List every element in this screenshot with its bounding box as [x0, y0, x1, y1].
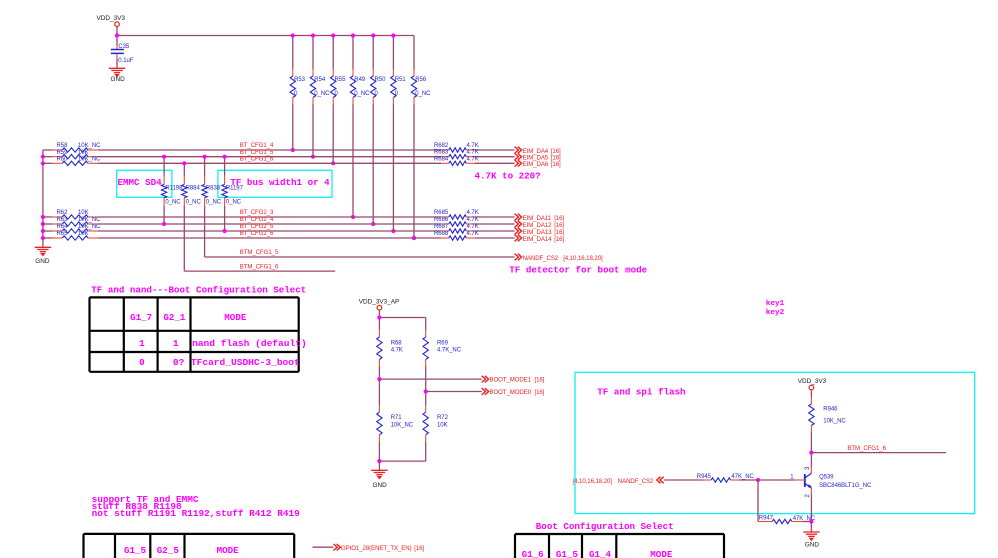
wire R884 bottom — [183, 206, 185, 271]
wire R1197 top — [224, 157, 226, 176]
svg-text:R62: R62 — [57, 210, 69, 216]
svg-text:not stuff R1191 R1192,stuff R4: not stuff R1191 R1192,stuff R412 R419 — [92, 508, 301, 519]
wire GPIO1_28 — [313, 546, 334, 548]
svg-text:0_NC: 0_NC — [186, 200, 202, 206]
svg-text:R686: R686 — [434, 217, 449, 223]
svg-text:EIM_DA14: EIM_DA14 — [523, 236, 553, 243]
svg-text:SBC846BLT1G_NC: SBC846BLT1G_NC — [819, 483, 872, 489]
svg-text:MODE: MODE — [650, 549, 673, 558]
svg-text:4.7K: 4.7K — [467, 224, 479, 230]
wire rail to R62 — [43, 216, 53, 218]
svg-text:GND: GND — [111, 76, 126, 83]
off-page connector EIM_DA12 — [515, 221, 522, 228]
wire R51 to row — [392, 105, 394, 232]
svg-text:10K_NC: 10K_NC — [78, 224, 101, 230]
power symbol VDD_3V3 (right) — [809, 385, 814, 390]
svg-text:10K_NC: 10K_NC — [78, 156, 101, 162]
svg-text:R64: R64 — [57, 224, 69, 230]
svg-text:4.7K to 220?: 4.7K to 220? — [475, 170, 541, 181]
svg-text:GPIO1_28(ENET_TX_EN): GPIO1_28(ENET_TX_EN) — [341, 545, 412, 552]
node bus junction R54 — [311, 33, 315, 37]
table boot configuration select — [515, 534, 724, 558]
svg-text:[16]: [16] — [535, 377, 545, 384]
resistor R685 — [441, 215, 475, 219]
svg-text:G1_5: G1_5 — [556, 549, 579, 558]
node BTM_CFG1_6 junction — [809, 451, 813, 455]
svg-text:BT_CFG1_6: BT_CFG1_6 — [240, 155, 274, 162]
svg-text:10K: 10K — [437, 422, 448, 428]
svg-text:0: 0 — [139, 357, 145, 368]
svg-text:47K_NC: 47K_NC — [731, 474, 754, 480]
svg-text:GND: GND — [373, 482, 388, 489]
wire BT_CFG1_5 — [98, 156, 441, 158]
wire bottom joining — [379, 442, 425, 461]
resistor R56 — [411, 69, 416, 105]
wire R1197 bottom — [224, 206, 226, 231]
svg-text:R1198: R1198 — [165, 186, 183, 192]
resistor R686 — [441, 222, 475, 226]
resistor R53 — [290, 69, 295, 105]
svg-text:4.7K: 4.7K — [467, 231, 479, 237]
wire BT_CFG2_5 — [98, 230, 441, 232]
svg-text:R838: R838 — [206, 186, 221, 192]
node VDD_3V3 junction at C35 — [115, 33, 119, 37]
wire BT_CFG2_3 — [98, 216, 441, 218]
svg-text:0: 0 — [375, 91, 379, 97]
svg-text:BT_CFG2_6: BT_CFG2_6 — [240, 230, 274, 237]
node bus junction R50 — [371, 33, 375, 37]
resistor R884 — [182, 176, 187, 206]
resistor R65 — [53, 236, 98, 240]
node R55 row junction — [331, 161, 335, 165]
wire R946 to collector node — [810, 433, 812, 467]
svg-text:R65: R65 — [57, 231, 69, 237]
resistor R54 — [310, 69, 315, 105]
node rail junction — [41, 155, 45, 159]
svg-text:BOOT_MODE1: BOOT_MODE1 — [490, 377, 532, 384]
resistor R945 — [703, 478, 739, 482]
resistor R59 — [53, 155, 98, 159]
wire R838 top — [204, 157, 206, 176]
wire BOOT_MODE1 — [379, 378, 481, 380]
svg-text:G2_1: G2_1 — [163, 312, 186, 323]
ground GND (left) — [35, 247, 51, 255]
resistor R50 — [371, 69, 376, 105]
svg-text:10K_NC: 10K_NC — [78, 217, 101, 223]
wire BT_CFG1_4 — [98, 149, 441, 151]
wire R884 top — [183, 163, 185, 175]
annotation box TF bus width — [218, 170, 332, 197]
svg-text:R51: R51 — [395, 77, 407, 83]
wire R56 to row — [413, 105, 415, 239]
wire rail to R63 — [43, 223, 53, 225]
svg-text:R684: R684 — [434, 156, 449, 162]
off-page connector BOOT_MODE0 — [482, 388, 489, 395]
resistor R69 — [423, 330, 428, 366]
node R56 row junction — [412, 236, 416, 240]
resistor R68 — [377, 330, 382, 366]
node bus junction R51 — [391, 33, 395, 37]
node R1198 top junction — [162, 155, 166, 159]
svg-text:BT_CFG2_4: BT_CFG2_4 — [240, 216, 274, 223]
node rail junction — [41, 161, 45, 165]
wire R685 to connector — [475, 216, 515, 218]
node bottom junction — [377, 459, 381, 463]
svg-text:0_NC: 0_NC — [206, 200, 222, 206]
svg-text:10K_NC: 10K_NC — [823, 419, 846, 425]
node R49 row junction — [351, 215, 355, 219]
svg-text:0_NC: 0_NC — [226, 200, 242, 206]
off-page connector BOOT_MODE1 — [482, 376, 489, 383]
wire to GND — [378, 461, 380, 470]
node R53 row junction — [291, 148, 295, 152]
svg-text:0.1uF: 0.1uF — [118, 58, 133, 64]
node R1197 top junction — [223, 155, 227, 159]
node R1198 bottom junction — [162, 222, 166, 226]
wire rail to R58 — [43, 149, 53, 151]
wire bus drop to R56 — [413, 36, 415, 70]
svg-text:EIM_DA11: EIM_DA11 — [523, 215, 552, 222]
svg-text:R945: R945 — [697, 474, 712, 480]
off-page connector EIM_DA14 — [515, 235, 522, 242]
svg-text:R63: R63 — [57, 217, 69, 223]
svg-text:1: 1 — [139, 338, 145, 349]
wire R50 to row — [372, 105, 374, 225]
resistor R58 — [53, 148, 98, 152]
svg-text:[16]: [16] — [554, 222, 564, 229]
resistor R684 — [441, 161, 475, 165]
table bottom-left mode table — [84, 534, 295, 558]
off-page connector EIM_DA13 — [515, 228, 522, 235]
svg-text:[16]: [16] — [554, 236, 564, 243]
wire emitter down — [810, 494, 812, 532]
node bus junction R55 — [331, 33, 335, 37]
node emitter junction — [809, 519, 813, 523]
svg-text:2: 2 — [805, 494, 811, 498]
svg-text:R884: R884 — [186, 186, 201, 192]
svg-text:0: 0 — [335, 91, 339, 97]
resistor R63 — [53, 222, 98, 226]
wire R1198 bottom — [163, 206, 165, 224]
wire BT_CFG2_6 — [98, 237, 441, 239]
svg-text:4.7K: 4.7K — [467, 217, 479, 223]
wire R68 to R71 — [378, 367, 380, 406]
node rail junction — [41, 229, 45, 233]
svg-text:TFcard_USDHC-3_boot: TFcard_USDHC-3_boot — [191, 357, 300, 368]
wire R682 to connector — [475, 149, 515, 151]
svg-text:4.7K: 4.7K — [467, 150, 479, 156]
table TF and nand boot configuration — [90, 297, 299, 371]
wire bus drop to R51 — [392, 36, 394, 70]
svg-text:R682: R682 — [434, 143, 449, 149]
wire junction down to R947 — [757, 480, 759, 522]
svg-text:R55: R55 — [335, 77, 347, 83]
capacitor C35 — [111, 45, 124, 58]
svg-text:MODE: MODE — [217, 545, 240, 556]
svg-text:G1_5: G1_5 — [124, 545, 147, 556]
svg-text:0: 0 — [395, 91, 399, 97]
svg-text:VDD_3V3: VDD_3V3 — [798, 378, 827, 385]
node base junction — [756, 478, 760, 482]
svg-text:[16]: [16] — [414, 545, 424, 552]
svg-text:EIM_DA6: EIM_DA6 — [523, 161, 549, 168]
svg-text:R72: R72 — [437, 415, 449, 421]
svg-text:G1_6: G1_6 — [522, 549, 544, 558]
svg-text:EIM_DA12: EIM_DA12 — [523, 222, 553, 229]
node BOOT_MODE1 junction — [377, 377, 381, 381]
svg-text:R685: R685 — [434, 210, 449, 216]
svg-text:key1: key1 — [766, 300, 785, 308]
svg-text:R56: R56 — [415, 77, 427, 83]
svg-text:0_NC: 0_NC — [314, 91, 330, 97]
svg-text:4.7K: 4.7K — [467, 143, 479, 149]
resistor R64 — [53, 229, 98, 233]
node rail junction — [41, 236, 45, 240]
wire BT_CFG1_6 — [98, 162, 441, 164]
wire R53 to row — [292, 105, 294, 151]
wire BT_CFG2_4 — [98, 223, 441, 225]
svg-text:R58: R58 — [57, 143, 69, 149]
ground GND (middle) — [371, 470, 387, 478]
resistor R947 — [758, 519, 803, 523]
node R884 top junction — [182, 161, 186, 165]
svg-text:10K: 10K — [78, 150, 89, 156]
svg-text:[4,10,16,18,20]: [4,10,16,18,20] — [573, 478, 613, 485]
resistor R55 — [331, 69, 336, 105]
wire R686 to connector — [475, 223, 515, 225]
svg-text:R68: R68 — [391, 340, 403, 346]
svg-text:NANDF_CS2: NANDF_CS2 — [618, 478, 654, 485]
wire R69 to R72 — [425, 367, 427, 406]
resistor R1197 — [222, 176, 227, 206]
power symbol VDD_3V3 — [115, 22, 120, 27]
svg-text:4.7K_NC: 4.7K_NC — [437, 348, 462, 354]
svg-text:R60: R60 — [57, 156, 69, 162]
svg-text:TF and nand---Boot Configurati: TF and nand---Boot Configuration Select — [91, 284, 306, 295]
svg-text:4.7K: 4.7K — [391, 348, 403, 354]
wire bus drop to R53 — [292, 36, 294, 70]
wire R945 to base — [739, 479, 796, 481]
node top junction — [377, 315, 381, 319]
off-page connector EIM_DA4 — [515, 147, 522, 154]
off-page connector GPIO1_28 — [333, 544, 340, 551]
svg-text:0_NC: 0_NC — [415, 91, 431, 97]
off-page connector EIM_DA11 — [515, 214, 522, 221]
wire R1198 top — [163, 157, 165, 176]
svg-text:3: 3 — [805, 466, 811, 470]
svg-text:[16]: [16] — [535, 389, 545, 396]
svg-text:R54: R54 — [314, 77, 326, 83]
svg-text:GND: GND — [805, 542, 820, 549]
svg-text:R59: R59 — [57, 150, 69, 156]
off-page connector NANDF_CS2 — [515, 254, 522, 261]
svg-text:10K_NC: 10K_NC — [391, 422, 414, 428]
svg-text:0: 0 — [294, 91, 298, 97]
svg-text:BTM_CFG1_6: BTM_CFG1_6 — [847, 445, 886, 452]
svg-text:[16]: [16] — [554, 215, 564, 222]
wire rail to R64 — [43, 230, 53, 232]
node R51 row junction — [391, 229, 395, 233]
wire rail to R65 — [43, 237, 53, 239]
svg-text:R683: R683 — [434, 150, 449, 156]
svg-text:EMMC SD4: EMMC SD4 — [118, 177, 163, 188]
resistor R72 — [423, 405, 428, 442]
wire R838 bottom — [204, 206, 206, 257]
ground GND (right) — [803, 532, 819, 540]
resistor R687 — [441, 229, 475, 233]
svg-text:R687: R687 — [434, 224, 449, 230]
node R50 row junction — [371, 222, 375, 226]
ground GND (top-left) — [109, 68, 125, 76]
wire rail to R60 — [43, 162, 53, 164]
wire rail to R59 — [43, 156, 53, 158]
svg-text:G2_5: G2_5 — [157, 545, 180, 556]
wire R683 to connector — [475, 156, 515, 158]
off-page connector EIM_DA5 — [515, 153, 522, 160]
wire R54 to row — [312, 105, 314, 157]
wire R55 to row — [332, 105, 334, 164]
wire bus drop to R49 — [352, 36, 354, 70]
node rail junction — [41, 215, 45, 219]
svg-text:4.7K: 4.7K — [467, 156, 479, 162]
svg-text:TF and spi flash: TF and spi flash — [597, 387, 685, 398]
resistor R838 — [202, 176, 207, 206]
wire bus drop to R54 — [312, 36, 314, 70]
node BOOT_MODE0 junction — [424, 389, 428, 393]
svg-text:R947: R947 — [759, 515, 774, 521]
svg-text:[4,10,16,18,20]: [4,10,16,18,20] — [563, 255, 603, 262]
svg-text:G1_4: G1_4 — [589, 549, 612, 558]
svg-text:BTM_CFG1_5: BTM_CFG1_5 — [240, 249, 279, 256]
svg-text:Boot Configuration Select: Boot Configuration Select — [536, 521, 674, 532]
resistor R946 — [809, 397, 814, 433]
wire VDD_3V3 vertical — [116, 27, 118, 46]
power symbol VDD_3V3_AP — [377, 305, 382, 310]
resistor R71 — [377, 405, 382, 442]
transistor Q539 — [795, 467, 811, 495]
svg-text:MODE: MODE — [224, 312, 247, 323]
svg-text:[16]: [16] — [554, 229, 564, 236]
wire BTM_CFG1_5 / NANDF_CS2 — [205, 256, 515, 258]
svg-text:R50: R50 — [375, 77, 387, 83]
node bus junction R49 — [351, 33, 355, 37]
svg-text:R49: R49 — [354, 77, 366, 83]
wire R49 to row — [352, 105, 354, 218]
annotation box EMMC SD4 — [117, 170, 172, 197]
wire R688 to connector — [475, 237, 515, 239]
svg-text:key2: key2 — [766, 309, 785, 317]
resistor R682 — [441, 148, 475, 152]
svg-text:TF bus width1 or 4: TF bus width1 or 4 — [230, 177, 330, 188]
svg-text:nand flash (default): nand flash (default) — [192, 338, 307, 349]
svg-text:R688: R688 — [434, 231, 449, 237]
svg-text:4.7K: 4.7K — [467, 210, 479, 216]
annotation box TF and spi flash — [575, 372, 975, 513]
svg-text:10K: 10K — [78, 231, 89, 237]
svg-text:TF detector for boot mode: TF detector for boot mode — [509, 264, 647, 275]
wire VDD_3V3 bus — [117, 35, 414, 37]
resistor R60 — [53, 161, 98, 165]
svg-text:0_NC: 0_NC — [354, 91, 370, 97]
svg-text:VDD_3V3: VDD_3V3 — [97, 15, 126, 22]
wire C35 to ground — [116, 58, 118, 68]
resistor R688 — [441, 236, 475, 240]
node rail junction — [41, 222, 45, 226]
svg-text:EIM_DA13: EIM_DA13 — [523, 229, 553, 236]
wire VDD_3V3_AP rail — [378, 310, 380, 330]
svg-text:C35: C35 — [118, 44, 130, 50]
wire bus drop to R55 — [332, 36, 334, 70]
svg-text:0_NC: 0_NC — [165, 200, 181, 206]
resistor R1198 — [161, 176, 166, 206]
svg-text:GND: GND — [35, 258, 50, 265]
off-page connector EIM_DA6 — [515, 160, 522, 167]
wire BOOT_MODE0 — [426, 391, 482, 393]
wire top branch — [379, 318, 425, 331]
svg-text:NANDF_CS2: NANDF_CS2 — [523, 255, 559, 262]
wire NANDF_CS2 to R945 — [664, 479, 703, 481]
svg-text:1: 1 — [173, 338, 179, 349]
svg-text:BT_CFG2_5: BT_CFG2_5 — [240, 223, 274, 230]
wire R684 to connector — [475, 162, 515, 164]
wire BTM_CFG1_6 — [184, 270, 335, 272]
resistor R49 — [350, 69, 355, 105]
svg-text:R53: R53 — [294, 77, 306, 83]
wire left GND rail — [42, 150, 44, 247]
node bus junction R53 — [291, 33, 295, 37]
svg-text:R946: R946 — [823, 407, 838, 413]
resistor R51 — [391, 69, 396, 105]
svg-text:BOOT_MODE0: BOOT_MODE0 — [490, 389, 532, 396]
svg-text:R71: R71 — [391, 415, 403, 421]
wire R947 to emitter node — [803, 521, 811, 523]
wire R687 to connector — [475, 230, 515, 232]
node R54 row junction — [311, 155, 315, 159]
svg-text:VDD_3V3_AP: VDD_3V3_AP — [359, 298, 400, 305]
resistor R683 — [441, 155, 475, 159]
svg-text:10K_NC: 10K_NC — [78, 143, 101, 149]
svg-text:0?: 0? — [173, 357, 185, 368]
svg-text:BTM_CFG1_6: BTM_CFG1_6 — [240, 263, 279, 270]
svg-text:10K: 10K — [78, 210, 89, 216]
node R838 top junction — [203, 155, 207, 159]
svg-text:BT_CFG2_3: BT_CFG2_3 — [240, 209, 274, 216]
wire BTM_CFG1_6 (right) — [811, 452, 946, 454]
svg-text:R69: R69 — [437, 340, 449, 346]
svg-text:G1_7: G1_7 — [130, 312, 152, 323]
wire bus drop to R50 — [372, 36, 374, 70]
svg-text:Q539: Q539 — [819, 475, 834, 481]
resistor R62 — [53, 215, 98, 219]
node R1197 bottom junction — [223, 229, 227, 233]
wire VDD to R946 — [810, 390, 812, 397]
svg-text:[16]: [16] — [551, 161, 561, 168]
